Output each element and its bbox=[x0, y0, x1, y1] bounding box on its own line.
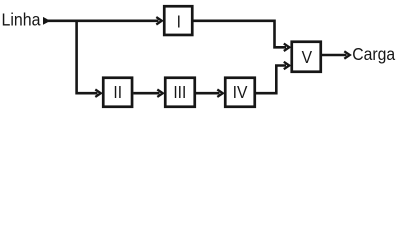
svg-text:III: III bbox=[173, 82, 186, 102]
svg-text:V: V bbox=[302, 47, 313, 67]
svg-text:Carga: Carga bbox=[352, 44, 395, 64]
svg-text:I: I bbox=[177, 11, 181, 31]
svg-text:IV: IV bbox=[233, 82, 248, 102]
svg-text:Linha: Linha bbox=[2, 9, 41, 29]
svg-text:II: II bbox=[113, 82, 122, 102]
